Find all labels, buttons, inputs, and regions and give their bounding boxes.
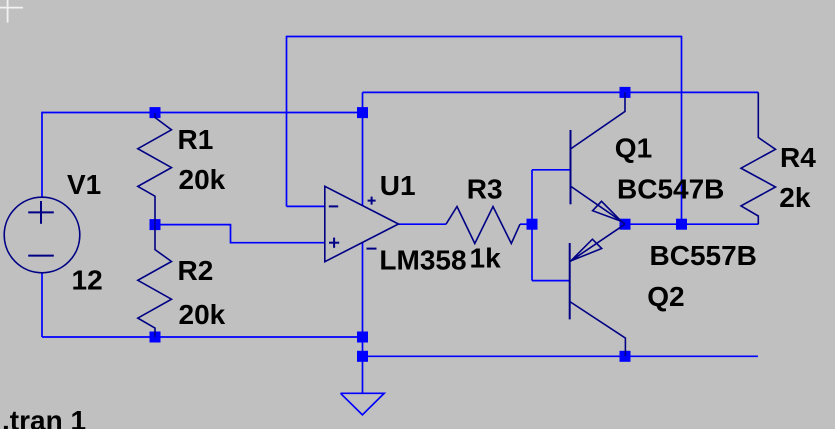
- wire inverting input: [287, 205, 326, 207]
- node G feedback-output junction: [676, 219, 687, 230]
- wire noninverting input path: [155, 225, 326, 243]
- node I ground-left junction: [357, 332, 368, 343]
- wire R3 right stub: [520, 223, 532, 225]
- node H R2 bottom junction: [150, 332, 161, 343]
- svg-text:2k: 2k: [779, 182, 811, 213]
- wire supply rail y92: [363, 91, 759, 93]
- svg-text:R2: R2: [178, 255, 214, 286]
- svg-text:1k: 1k: [470, 243, 502, 274]
- node C Q1 collector junction: [620, 87, 631, 98]
- svg-text:R3: R3: [467, 173, 503, 204]
- wire bases vertical: [531, 170, 533, 281]
- node D R1-R2 junction: [150, 219, 161, 230]
- wire opamp V- pin to ground: [362, 243, 364, 393]
- resistor R4: [741, 92, 776, 224]
- wire feedback left vertical: [286, 36, 288, 207]
- transistor Q2: [570, 224, 626, 356]
- ground: [341, 393, 385, 415]
- wire jog x362: [362, 92, 364, 112]
- op-amp noninverting plus: [329, 242, 339, 244]
- op-amp inverting minus: [329, 205, 338, 207]
- svg-text:LM358: LM358: [379, 244, 466, 275]
- transistor Q1: [571, 92, 626, 223]
- node F output emitters junction: [620, 219, 631, 230]
- svg-text:Q2: Q2: [647, 281, 684, 312]
- svg-text:U1: U1: [380, 170, 416, 201]
- op-amp V- label: [367, 248, 377, 250]
- svg-text:.tran 1: .tran 1: [2, 405, 86, 429]
- node K Q2 collector junction: [620, 351, 631, 362]
- wire rail V1-R1 y112: [42, 112, 363, 114]
- voltage source V1 circle: [4, 197, 80, 273]
- resistor R1: [138, 113, 172, 225]
- svg-text:20k: 20k: [179, 299, 226, 330]
- svg-text:12: 12: [72, 265, 103, 296]
- svg-text:V1: V1: [67, 169, 101, 200]
- wire output row right: [625, 223, 758, 225]
- wire opamp output: [398, 223, 447, 225]
- wire V1 bottom lead: [41, 273, 43, 337]
- wire bottom-right rail y356: [363, 355, 758, 357]
- Q2 emitter arrow: [571, 239, 602, 261]
- wire opamp V+ pin: [362, 113, 364, 206]
- node E R3-bases junction: [527, 219, 538, 230]
- wire V1 top lead: [41, 112, 43, 198]
- wire feedback right vertical: [681, 36, 683, 225]
- svg-text:R1: R1: [178, 124, 214, 155]
- wire Q2 base: [532, 280, 570, 282]
- resistor R2: [138, 225, 172, 337]
- node B opamp V+ junction: [357, 107, 368, 118]
- node A R1 top: [150, 107, 161, 118]
- resistor R3: [446, 207, 520, 244]
- svg-text:BC547B: BC547B: [617, 173, 724, 204]
- svg-text:R4: R4: [780, 142, 816, 173]
- V1 plus sign: [28, 201, 54, 256]
- Q1 emitter arrow: [593, 201, 622, 221]
- wire bottom-left rail y337: [42, 336, 363, 338]
- svg-text:20k: 20k: [179, 164, 226, 195]
- op-amp V+ label: [368, 200, 376, 202]
- svg-text:BC557B: BC557B: [650, 240, 757, 271]
- node J ground-right junction: [357, 351, 368, 362]
- cursor cross top-left: [0, 0, 23, 23]
- wire Q1 base: [532, 169, 571, 171]
- V1 minus sign: [28, 255, 54, 257]
- op-amp U1 triangle: [325, 186, 399, 261]
- wire top feedback rail: [287, 36, 682, 38]
- svg-text:Q1: Q1: [615, 132, 652, 163]
